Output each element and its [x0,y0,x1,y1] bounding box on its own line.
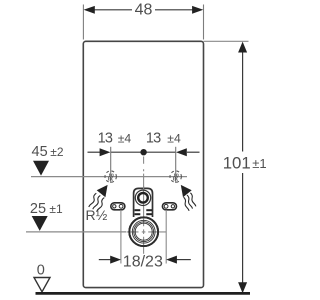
svg-text:45: 45 [32,144,48,160]
svg-text:R½: R½ [86,207,108,223]
svg-text:13: 13 [146,131,161,147]
svg-text:±2: ±2 [50,145,64,159]
svg-text:0: 0 [37,263,45,279]
svg-text:±1: ±1 [49,202,63,216]
svg-text:±1: ±1 [252,156,266,171]
svg-text:18/23: 18/23 [123,253,163,270]
svg-text:48: 48 [135,2,153,19]
svg-text:25: 25 [30,201,46,217]
svg-text:101: 101 [223,153,251,172]
svg-text:±4: ±4 [167,131,181,145]
svg-text:13: 13 [98,131,113,147]
svg-text:±4: ±4 [118,131,132,145]
